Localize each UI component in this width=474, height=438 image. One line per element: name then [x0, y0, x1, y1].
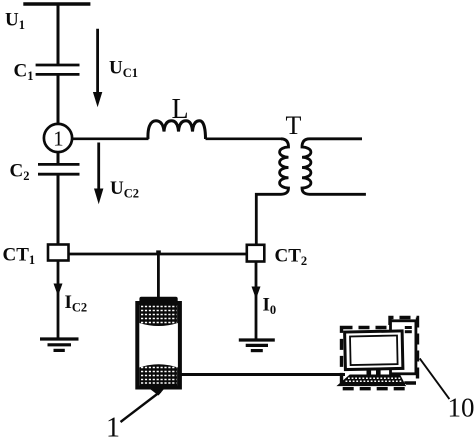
arrow UC2: [94, 143, 103, 205]
wire bus to C1: [57, 3, 60, 65]
wire recorder to computer: [180, 373, 345, 376]
computer 10 dashed enclosure: [342, 318, 418, 389]
svg-text:1: 1: [53, 126, 64, 150]
bus bar U1: [23, 2, 90, 6]
pointer line to label 1: [121, 392, 161, 423]
recorder device 1: [137, 297, 180, 396]
transformer T secondary winding: [302, 139, 366, 195]
CT1 box: [48, 245, 69, 261]
computer tower: [391, 321, 416, 374]
svg-text:C2: C2: [10, 161, 30, 184]
pointer line to label 10: [420, 358, 450, 399]
node 1 circle: [44, 124, 72, 152]
transformer T primary winding: [256, 139, 288, 245]
wire circle to C2: [57, 152, 60, 165]
svg-text:T: T: [286, 111, 302, 140]
wire CT1 to ground, arrow IC2: [54, 261, 63, 339]
wire junction to recorder: [157, 254, 160, 298]
junction node: [156, 250, 161, 255]
svg-text:UC1: UC1: [109, 58, 138, 81]
ground left: [40, 339, 79, 350]
svg-text:I0: I0: [263, 295, 277, 318]
wire CT2 to ground, arrow I0: [252, 262, 261, 340]
ground right: [239, 340, 275, 351]
svg-text:C1: C1: [14, 61, 34, 84]
wire C1 to circle: [57, 74, 60, 125]
svg-text:10: 10: [448, 393, 474, 423]
arrow UC1: [93, 29, 102, 108]
svg-text:IC2: IC2: [65, 292, 88, 315]
wire C2 to CT1: [57, 174, 60, 245]
computer keyboard: [338, 375, 405, 385]
wire circle to inductor: [72, 138, 149, 141]
wire CT1 to CT2: [68, 253, 247, 256]
svg-text:U1: U1: [5, 10, 25, 33]
monitor stand: [367, 369, 381, 376]
svg-text:L: L: [172, 94, 189, 125]
computer monitor: [345, 331, 403, 370]
inductor L: [148, 121, 206, 139]
wire inductor to transformer: [206, 138, 283, 141]
capacitor C1: [36, 65, 80, 74]
capacitor C2: [38, 164, 80, 174]
svg-text:1: 1: [106, 413, 120, 438]
svg-text:CT1: CT1: [3, 245, 36, 268]
svg-text:UC2: UC2: [110, 178, 139, 201]
svg-text:CT2: CT2: [275, 246, 308, 269]
CT2 box: [247, 245, 264, 262]
